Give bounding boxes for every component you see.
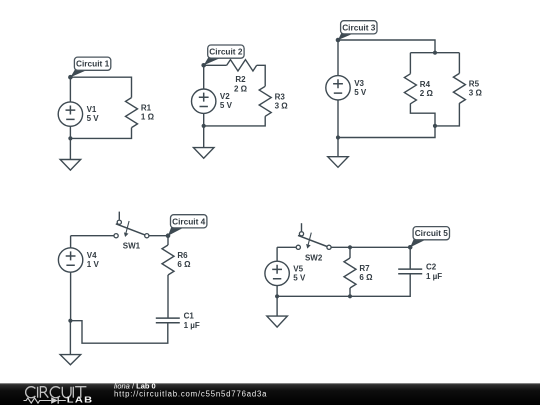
svg-text:5 V: 5 V [220,101,233,110]
voltage source V1 [58,102,99,126]
ground [267,296,288,327]
svg-text:Circuit 4: Circuit 4 [172,216,206,226]
svg-text:V2: V2 [220,92,230,101]
svg-text:V5: V5 [293,264,303,273]
svg-text:1 Ω: 1 Ω [141,113,155,122]
ground [60,321,81,365]
wire [70,77,131,138]
svg-text:V4: V4 [87,251,97,260]
svg-text:3 Ω: 3 Ω [275,101,289,110]
svg-text:Circuit 3: Circuit 3 [342,22,376,32]
resistor R7 [344,258,373,288]
svg-text:V1: V1 [87,105,97,114]
CircuitLab logo wordmark CIRCUIT (drawn as paths) [26,387,87,398]
svg-text:R7: R7 [359,264,370,273]
svg-text:Circuit 1: Circuit 1 [76,59,110,69]
node label Circuit 4 flag [166,215,207,238]
junction [348,245,352,249]
svg-text:R2: R2 [235,75,246,84]
svg-text:R1: R1 [141,104,152,113]
junction [433,51,437,55]
svg-text:LAB: LAB [67,396,94,405]
ground [193,126,214,158]
svg-text:C2: C2 [426,263,437,272]
junction [68,319,72,323]
svg-text:V3: V3 [354,79,364,88]
capacitor C2 [398,263,442,282]
node label Circuit 5 flag [408,227,450,250]
junction [202,124,206,128]
wire [277,247,410,296]
svg-text:Circuit 2: Circuit 2 [209,47,243,57]
node label Circuit 3 flag [336,21,377,43]
resistor R3 [259,86,288,116]
junction [433,124,437,128]
svg-text:http://circuitlab.com/c55n5d77: http://circuitlab.com/c55n5d776ad3a [114,389,267,398]
junction [275,294,279,298]
svg-text:1 V: 1 V [87,260,100,269]
resistor R1 [126,98,155,128]
resistor R6 [162,245,191,275]
svg-text:5 V: 5 V [354,88,367,97]
voltage source V3 [326,76,367,100]
svg-text:R6: R6 [177,251,188,260]
wire [338,40,459,138]
svg-text:C1: C1 [184,312,195,321]
junction [348,294,352,298]
svg-text:R3: R3 [275,92,286,101]
ground [328,138,349,168]
svg-text:R5: R5 [469,79,480,88]
wire [204,65,266,126]
wire [70,236,168,344]
switch SW2 [296,223,331,263]
junction [336,135,340,139]
svg-text:3 Ω: 3 Ω [469,88,483,97]
svg-text:5 V: 5 V [293,273,306,282]
voltage source V5 [265,261,306,285]
svg-text:6 Ω: 6 Ω [177,260,191,269]
voltage source V4 [58,248,99,272]
resistor R4 [404,74,433,104]
svg-text:R4: R4 [420,80,431,89]
node label Circuit 1 flag [68,57,111,79]
logo resistor-diode squiggle [24,398,66,403]
node label Circuit 2 flag [201,45,244,68]
svg-text:2 Ω: 2 Ω [234,85,248,94]
svg-text:5 V: 5 V [87,114,100,123]
voltage source V2 [192,89,233,113]
svg-text:1 µF: 1 µF [184,321,200,330]
switch SW1 [114,212,149,251]
svg-text:1 µF: 1 µF [426,272,442,281]
svg-text:SW2: SW2 [305,254,323,263]
resistor R2 [227,60,257,94]
svg-text:6 Ω: 6 Ω [359,273,373,282]
capacitor C1 [156,312,200,331]
svg-text:2 Ω: 2 Ω [420,89,434,98]
resistor R5 [453,73,482,103]
svg-text:Circuit 5: Circuit 5 [415,228,449,238]
ground [60,138,81,170]
junction [68,136,72,140]
svg-text:SW1: SW1 [123,241,141,250]
